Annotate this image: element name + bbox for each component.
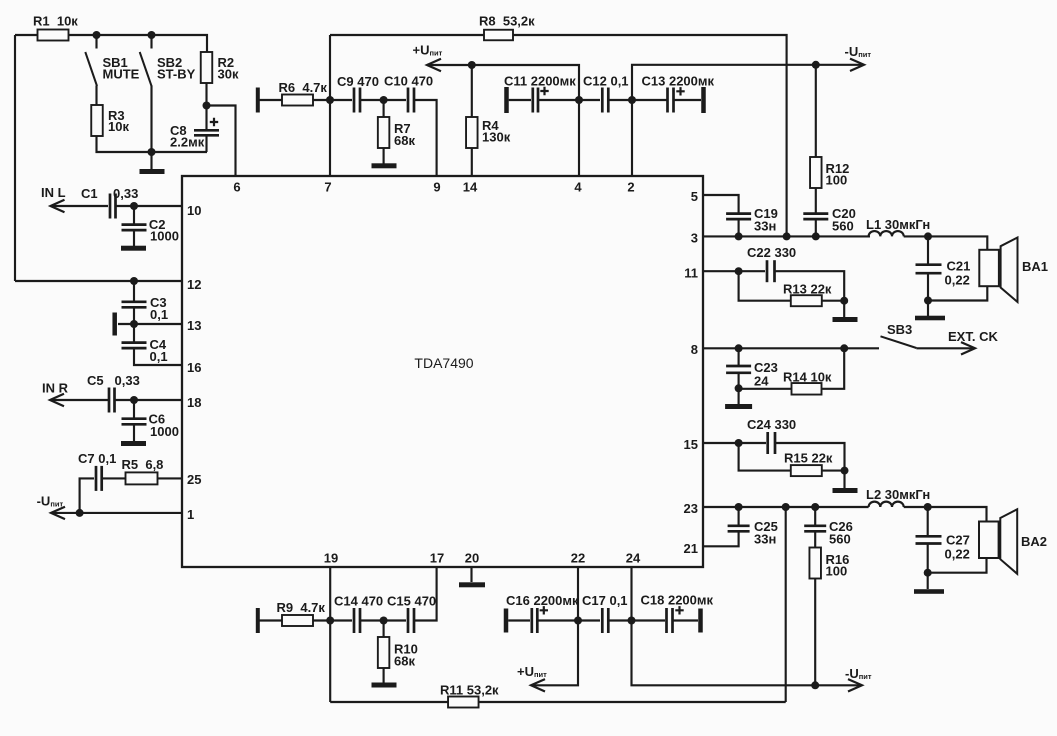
speaker BA2 xyxy=(979,509,1017,574)
svg-text:TDA7490: TDA7490 xyxy=(414,355,473,371)
svg-text:0,22: 0,22 xyxy=(945,547,970,562)
ground C6 xyxy=(121,441,146,446)
wire pin5 to C19 xyxy=(703,195,739,213)
wire gnd to R6 xyxy=(260,99,283,101)
wire R15 left arm xyxy=(739,443,791,471)
svg-text:BA1: BA1 xyxy=(1022,259,1048,274)
wire C7 left arm xyxy=(80,478,94,513)
wire C27 ground stem xyxy=(927,573,929,589)
wire pin22 node to C17 xyxy=(578,619,600,621)
svg-text:10: 10 xyxy=(187,203,201,218)
arrow -U pin1 xyxy=(51,507,65,519)
svg-text:EXT. CK: EXT. CK xyxy=(948,329,998,344)
svg-text:9: 9 xyxy=(433,180,440,195)
arrow IN R xyxy=(50,394,64,406)
svg-text:22: 22 xyxy=(571,551,585,566)
svg-text:0,33: 0,33 xyxy=(115,373,140,388)
inductor L1 xyxy=(866,217,930,236)
wire R14 left arm xyxy=(739,388,792,390)
wire pin24 node to C18 xyxy=(632,619,666,621)
resistor R1 xyxy=(33,14,78,41)
svg-text:14: 14 xyxy=(463,180,478,195)
plus C8 xyxy=(210,118,218,126)
svg-text:68к: 68к xyxy=(394,654,415,669)
junction pin11 tap xyxy=(735,267,743,275)
speaker BA1 xyxy=(979,238,1017,303)
wire -U top rail xyxy=(632,65,862,100)
junction pin2 node xyxy=(628,96,636,104)
junction R6 C9 node xyxy=(326,96,334,104)
capacitor C1 xyxy=(110,194,116,219)
junction mute rail ground xyxy=(148,148,156,156)
svg-text:L1 30мкГн: L1 30мкГн xyxy=(866,217,930,232)
wire gnd to R9 xyxy=(260,619,283,621)
svg-text:24: 24 xyxy=(626,551,641,566)
svg-text:33н: 33н xyxy=(754,532,776,547)
capacitor C6 xyxy=(122,419,147,425)
junction C6 tap xyxy=(130,396,138,404)
wire C1 to pin10 xyxy=(116,205,183,207)
wire C21 ground stem xyxy=(927,301,929,317)
svg-text:3: 3 xyxy=(691,231,698,246)
wire R10 stem xyxy=(383,621,385,638)
svg-text:C11 2200мк: C11 2200мк xyxy=(504,74,576,89)
wire R2 to node xyxy=(205,83,207,106)
resistor R5 xyxy=(122,457,164,484)
capacitor C10 xyxy=(408,88,414,113)
wire R15 ground stem xyxy=(843,471,845,488)
junction R2 C8 node xyxy=(203,102,211,110)
svg-text:C5: C5 xyxy=(87,373,104,388)
wire C23 stem xyxy=(738,348,740,365)
capacitor C3 xyxy=(122,302,147,308)
wire +U top rail xyxy=(427,65,579,100)
capacitor C5 xyxy=(109,388,115,413)
wire C23 bottom xyxy=(738,373,740,389)
capacitor C16 xyxy=(532,608,538,633)
resistor R2 xyxy=(201,52,213,83)
svg-text:C15 470: C15 470 xyxy=(387,594,436,609)
junction R9 C14 node xyxy=(326,617,334,625)
wire C25 to pin21 xyxy=(703,531,739,546)
wire R11 left arm xyxy=(330,701,448,703)
capacitor C14 xyxy=(354,608,360,633)
wire C23 ground stem xyxy=(738,388,740,404)
wire C15 to pin17 xyxy=(414,567,437,621)
resistor R8 xyxy=(479,14,535,41)
svg-text:C18 2200мк: C18 2200мк xyxy=(641,593,714,608)
wire C13 to ground xyxy=(674,99,702,101)
wire pin2 to C13 xyxy=(632,99,667,101)
wire C22 right arm xyxy=(775,271,845,301)
wire IN R to C5 xyxy=(51,399,108,401)
arrow IN L xyxy=(51,200,65,212)
capacitor C4 xyxy=(122,343,147,349)
svg-text:SB3: SB3 xyxy=(887,322,912,337)
capacitor C23 xyxy=(726,366,751,373)
wire R7 to ground xyxy=(383,148,385,164)
wire pin23 net xyxy=(703,506,869,508)
junction SB2 top xyxy=(148,31,156,39)
wire SB3 to ext xyxy=(916,347,973,349)
svg-text:IN R: IN R xyxy=(42,381,69,396)
wire top rail R1 to R2 corner xyxy=(69,35,208,52)
svg-text:19: 19 xyxy=(324,551,338,566)
svg-text:R5 6,8: R5 6,8 xyxy=(122,457,164,472)
capacitor C24 xyxy=(768,432,775,454)
svg-text:24: 24 xyxy=(754,374,769,389)
svg-text:R15 22к: R15 22к xyxy=(784,451,833,466)
wire C17 to pin24 node xyxy=(609,619,629,621)
wire R4 to pin14 xyxy=(471,148,473,176)
junction SB1 top xyxy=(93,31,101,39)
plus C13 xyxy=(676,87,684,95)
svg-text:13: 13 xyxy=(187,318,201,333)
svg-text:1000: 1000 xyxy=(150,229,179,244)
wire pin1 net xyxy=(51,512,182,514)
junction pin13 node xyxy=(130,320,138,328)
wire gnd to C16 xyxy=(508,619,530,621)
wire SB1 upper stub xyxy=(95,35,97,49)
junction R15 ground node xyxy=(841,467,849,475)
wire pin11 to C22 xyxy=(703,270,765,272)
svg-text:68к: 68к xyxy=(394,133,415,148)
op-amp U1 TDA7490 body xyxy=(182,176,703,567)
capacitor C18 xyxy=(667,608,673,633)
resistor R16 xyxy=(809,548,821,579)
switch SB1 lever xyxy=(85,52,97,86)
svg-text:R8 53,2к: R8 53,2к xyxy=(479,14,535,29)
junction C27 BA2 bottom xyxy=(924,569,932,577)
wire C21 bottom xyxy=(927,273,929,301)
ground C2 xyxy=(121,246,146,251)
arrow -U bottom xyxy=(848,679,862,691)
ground C13 xyxy=(701,87,706,113)
svg-text:5: 5 xyxy=(691,189,698,204)
svg-text:560: 560 xyxy=(832,219,854,234)
wire R12 stem xyxy=(815,65,817,157)
arrow EXT CK xyxy=(961,342,975,354)
wire R4 stem xyxy=(471,65,473,118)
wire R5 to pin25 xyxy=(158,477,183,479)
junction R4 top xyxy=(468,61,476,69)
wire pin15 to C24 xyxy=(703,442,766,444)
junction C23 R14 node xyxy=(735,384,743,392)
wire L1 to BA1 xyxy=(904,236,988,249)
svg-text:0,33: 0,33 xyxy=(113,186,138,201)
wire SB1 to R3 xyxy=(95,86,97,106)
wire C16 to pin22 node xyxy=(537,619,576,621)
svg-text:R1 10к: R1 10к xyxy=(33,14,78,29)
resistor R12 xyxy=(810,157,822,188)
svg-text:23: 23 xyxy=(684,501,698,516)
svg-text:1000: 1000 xyxy=(150,424,179,439)
ground R13 xyxy=(833,317,858,322)
capacitor C26 xyxy=(804,526,826,532)
capacitor C27 xyxy=(916,536,942,543)
capacitor C19 xyxy=(726,214,751,220)
junction C27 top xyxy=(924,503,932,511)
wire C27 bottom xyxy=(927,544,929,573)
capacitor C22 xyxy=(767,260,775,282)
wire C11 to pin4 node xyxy=(538,99,577,101)
wire C20 to pin3 net xyxy=(815,219,817,236)
resistor R9 xyxy=(277,600,326,626)
wire C4 to pin16 xyxy=(134,348,182,365)
svg-text:2.2мк: 2.2мк xyxy=(170,135,205,150)
wire C6 to ground xyxy=(133,424,135,441)
ground R6 xyxy=(256,88,260,113)
ground C16 xyxy=(504,609,509,633)
svg-text:0,1: 0,1 xyxy=(150,349,168,364)
resistor R11 xyxy=(440,683,499,708)
wire node to C14 xyxy=(330,619,352,621)
svg-text:R13 22к: R13 22к xyxy=(783,282,832,297)
junction C9 C10 R7 xyxy=(380,96,388,104)
switch SB2 lever xyxy=(140,52,152,86)
junction R13 ground node xyxy=(840,297,848,305)
arrow +U bottom xyxy=(531,679,545,691)
junction pin22 node xyxy=(574,617,582,625)
junction R8 pin3 xyxy=(783,232,791,240)
svg-text:1: 1 xyxy=(187,507,194,522)
svg-text:R14 10к: R14 10к xyxy=(783,370,832,385)
arrow -U top xyxy=(850,59,864,71)
svg-text:C21: C21 xyxy=(947,259,971,274)
svg-text:ST-BY: ST-BY xyxy=(157,67,196,82)
wire C2 stem xyxy=(133,206,135,225)
capacitor C15 xyxy=(408,608,414,633)
wire C9 to C10 xyxy=(360,99,406,101)
wire C18 to ground xyxy=(673,619,699,621)
svg-text:R6 4.7к: R6 4.7к xyxy=(279,80,328,95)
wire IN L to C1 xyxy=(52,205,108,207)
wire C4 stem xyxy=(133,324,135,343)
wire node to C8 xyxy=(205,106,207,130)
resistor R4 xyxy=(466,117,478,148)
wire C3 to pin13 xyxy=(133,307,135,324)
ground pin20 xyxy=(459,582,485,587)
svg-text:C16 2200мк: C16 2200мк xyxy=(506,593,579,608)
svg-text:C9 470: C9 470 xyxy=(337,74,379,89)
junction C25 top xyxy=(735,503,743,511)
svg-text:R9 4.7к: R9 4.7к xyxy=(277,600,326,615)
resistor R15 xyxy=(784,451,833,477)
wire pin8 net xyxy=(703,347,879,349)
wire BA2 bottom xyxy=(928,558,987,573)
wire R13 left arm xyxy=(739,271,791,301)
svg-text:130к: 130к xyxy=(482,130,511,145)
ground R9 xyxy=(256,608,260,633)
svg-text:10к: 10к xyxy=(108,119,129,134)
wire R14 right arm xyxy=(822,348,845,389)
wire node to pin6 xyxy=(207,106,236,177)
wire C14 to C15 xyxy=(360,619,406,621)
wire C5 to pin18 xyxy=(115,399,183,401)
wire ground stem mute rail xyxy=(150,152,152,169)
junction R16 -U rail xyxy=(811,681,819,689)
wire pin20 stub xyxy=(470,567,472,582)
wire C19 to pin3 net xyxy=(738,219,740,236)
junction pin12 C3 xyxy=(130,277,138,285)
ground C11 xyxy=(504,87,509,113)
capacitor C11 xyxy=(533,88,538,113)
svg-text:11: 11 xyxy=(684,266,698,281)
svg-text:25: 25 xyxy=(187,472,201,487)
svg-text:C1: C1 xyxy=(81,186,98,201)
arrow +U top xyxy=(427,59,441,71)
capacitor C9 xyxy=(354,88,360,113)
wire C8 bottom xyxy=(205,135,207,152)
wire C26 stem xyxy=(814,507,816,525)
ground C27 xyxy=(914,589,944,594)
wire pin2 vertical xyxy=(631,100,633,176)
resistor R3 xyxy=(91,105,103,136)
ground R10 xyxy=(372,683,397,688)
junction R14 tap xyxy=(840,344,848,352)
plus C16 xyxy=(540,606,548,614)
svg-text:17: 17 xyxy=(430,551,444,566)
capacitor C13 xyxy=(668,88,674,113)
wire C7 to R5 xyxy=(102,477,126,479)
junction C14 C15 R10 xyxy=(380,617,388,625)
wire R13 right arm xyxy=(822,300,844,302)
svg-text:20: 20 xyxy=(465,551,479,566)
junction C19 pin3 xyxy=(735,232,743,240)
wire R8 to right vertical xyxy=(513,35,787,236)
svg-text:4: 4 xyxy=(574,180,582,195)
wire C12 to pin2 node xyxy=(609,99,630,101)
svg-text:C17 0,1: C17 0,1 xyxy=(582,593,628,608)
ground C23 xyxy=(725,404,752,409)
svg-text:L2 30мкГн: L2 30мкГн xyxy=(866,487,930,502)
capacitor C7 xyxy=(96,466,102,491)
capacitor C12 xyxy=(602,88,608,113)
wire C26 to R16 xyxy=(814,531,816,547)
svg-text:8: 8 xyxy=(691,342,698,357)
wire pin19 vertical xyxy=(329,567,331,702)
wire C27 stem xyxy=(927,507,929,536)
svg-text:21: 21 xyxy=(684,541,698,556)
wire R16 to -U rail xyxy=(814,579,816,686)
svg-text:33н: 33н xyxy=(754,219,776,234)
resistor R7 xyxy=(378,117,390,148)
svg-text:18: 18 xyxy=(187,395,201,410)
wire R3 bottom xyxy=(97,136,208,152)
ground C21 xyxy=(915,316,945,321)
ground pin13 xyxy=(112,313,117,336)
wire R8 feedback top xyxy=(330,34,484,36)
svg-text:7: 7 xyxy=(324,180,331,195)
wire SB2 upper stub xyxy=(150,35,152,49)
wire R13 ground stem xyxy=(843,301,845,317)
wire C6 stem xyxy=(133,400,135,419)
wire C2 to ground xyxy=(133,230,135,246)
wire pin4 to C12 xyxy=(579,99,600,101)
svg-text:560: 560 xyxy=(829,532,851,547)
svg-text:16: 16 xyxy=(187,360,201,375)
ground R15 xyxy=(833,488,858,493)
plus C18 xyxy=(675,606,683,614)
junction pin15 tap xyxy=(735,439,743,447)
junction C20 pin3 xyxy=(812,232,820,240)
svg-text:12: 12 xyxy=(187,277,201,292)
junction C7 tap pin1 xyxy=(76,509,84,517)
wire C3 stem xyxy=(133,281,135,301)
svg-text:C22 330: C22 330 xyxy=(747,245,796,260)
wire node to C9 xyxy=(330,99,352,101)
svg-text:C14 470: C14 470 xyxy=(334,594,383,609)
svg-text:C24 330: C24 330 xyxy=(747,417,796,432)
wire C21 stem xyxy=(927,236,929,264)
svg-text:0,22: 0,22 xyxy=(945,273,970,288)
capacitor C8 xyxy=(194,130,219,135)
wire R1 net top rail xyxy=(15,34,38,36)
svg-text:100: 100 xyxy=(826,173,848,188)
inductor L2 xyxy=(866,487,930,507)
wire L2 to BA2 xyxy=(904,507,987,522)
wire R6 to node xyxy=(313,99,330,101)
svg-text:100: 100 xyxy=(826,564,848,579)
wire C24 right arm xyxy=(775,443,845,471)
wire gnd to C11 xyxy=(509,99,531,101)
junction R12 top xyxy=(812,61,820,69)
resistor R6 xyxy=(279,80,328,106)
svg-text:6: 6 xyxy=(233,180,240,195)
svg-text:IN L: IN L xyxy=(41,185,66,200)
wire R15 right arm xyxy=(822,470,845,472)
svg-text:BA2: BA2 xyxy=(1021,534,1047,549)
wire R7 stem xyxy=(383,100,385,118)
svg-text:MUTE: MUTE xyxy=(103,67,140,82)
wire C25 stem xyxy=(738,507,740,525)
capacitor C20 xyxy=(803,214,828,220)
svg-text:0,1: 0,1 xyxy=(150,307,168,322)
junction feedback top xyxy=(782,503,790,511)
junction C26 top xyxy=(811,503,819,511)
wire +U bottom rail xyxy=(533,621,578,686)
svg-text:15: 15 xyxy=(684,437,698,452)
wire R12 to C20 xyxy=(815,188,817,213)
wire left input loop vertical xyxy=(14,35,16,281)
resistor R14 xyxy=(783,370,832,395)
wire pin12 net xyxy=(15,280,182,282)
switch SB3 lever xyxy=(881,336,917,348)
wire R11 right arm xyxy=(479,701,786,703)
wire C10 to pin9 xyxy=(414,100,437,176)
capacitor C21 xyxy=(916,265,942,274)
junction pin4 node xyxy=(575,96,583,104)
svg-text:2: 2 xyxy=(627,180,634,195)
capacitor C25 xyxy=(728,526,750,532)
wire R9 to node xyxy=(313,619,330,621)
ground R7 xyxy=(372,163,397,168)
wire pin24 vertical xyxy=(630,567,632,621)
svg-text:C27: C27 xyxy=(946,533,970,548)
resistor R13 xyxy=(783,282,832,307)
wire pin4 vertical xyxy=(578,100,580,176)
wire pin13 net xyxy=(118,323,182,325)
wire SB2 to bottom rail xyxy=(150,86,152,153)
wire R10 to ground xyxy=(383,668,385,683)
svg-text:R11 53,2к: R11 53,2к xyxy=(440,683,499,698)
wire pin3 net xyxy=(703,235,870,237)
capacitor C2 xyxy=(122,225,147,231)
wire BA1 bottom xyxy=(928,286,987,300)
ground mute rail xyxy=(140,169,165,174)
svg-text:C7 0,1: C7 0,1 xyxy=(78,451,116,466)
plus C11 xyxy=(540,87,548,95)
